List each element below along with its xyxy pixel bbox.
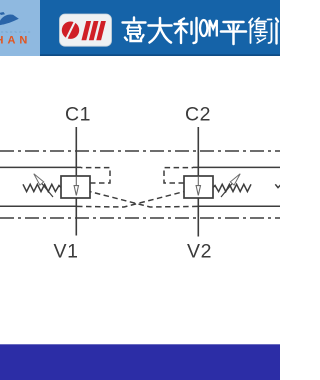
header title: 利 bbox=[175, 18, 197, 43]
cross pilot line V1-to-CB2 (dashed) bbox=[77, 192, 184, 207]
wire channel left upper bbox=[0, 166, 81, 168]
pilot loop CB1 (dashed) bbox=[81, 168, 110, 183]
footer bar bbox=[0, 344, 280, 380]
header title: 大 bbox=[149, 18, 172, 43]
header title: 意 bbox=[123, 18, 146, 42]
header bottom edge bbox=[0, 54, 280, 56]
svg-text:V2: V2 bbox=[187, 241, 212, 263]
header title: 阀 (clipped at right edge) bbox=[276, 19, 278, 44]
wire C1 riser bbox=[75, 127, 77, 176]
check arrow in CB1 bbox=[74, 177, 78, 196]
manifold boundary centre-line (bottom) bbox=[0, 217, 280, 219]
wire V1 drop bbox=[75, 198, 77, 236]
wire V2 drop bbox=[197, 198, 199, 237]
wire channel left lower bbox=[0, 205, 76, 207]
spring CB2 (adjustable) bbox=[213, 184, 251, 191]
OM logo plate bbox=[60, 14, 112, 46]
OM logo: slash through O bbox=[66, 21, 75, 39]
squiggle caption row bbox=[1, 31, 30, 34]
adjust arrow CB1 bbox=[34, 174, 53, 197]
svg-text:C1: C1 bbox=[65, 104, 91, 126]
wire C2 riser bbox=[197, 127, 199, 176]
bird emblem bbox=[0, 12, 5, 15]
check arrow in CB2 bbox=[196, 177, 200, 196]
manifold boundary centre-line (top) bbox=[0, 150, 280, 152]
spring CB1 (adjustable) bbox=[23, 184, 61, 191]
header title: 平 bbox=[221, 22, 246, 44]
company logo panel (light blue) bbox=[0, 0, 40, 56]
OM logo: M bars bbox=[81, 21, 105, 40]
counterbalance valve body CB1 bbox=[61, 176, 90, 198]
cross pilot line V2-to-CB1 (dashed) bbox=[90, 192, 198, 207]
header bar bbox=[0, 0, 280, 56]
adjust arrow CB2 bbox=[221, 174, 240, 197]
clipped symbol stub at right edge bbox=[275, 184, 281, 187]
OM logo: O disc bbox=[62, 22, 79, 39]
svg-text:HAN: HAN bbox=[0, 35, 31, 47]
header title: OM bbox=[200, 20, 217, 37]
svg-text:V1: V1 bbox=[54, 241, 79, 263]
wire channel right upper bbox=[193, 166, 280, 168]
header title: 衡 bbox=[249, 18, 272, 43]
pilot loop CB2 (dashed) bbox=[164, 168, 193, 183]
svg-text:C2: C2 bbox=[185, 104, 211, 126]
counterbalance valve body CB2 bbox=[184, 176, 213, 198]
wire channel right lower bbox=[198, 205, 280, 207]
